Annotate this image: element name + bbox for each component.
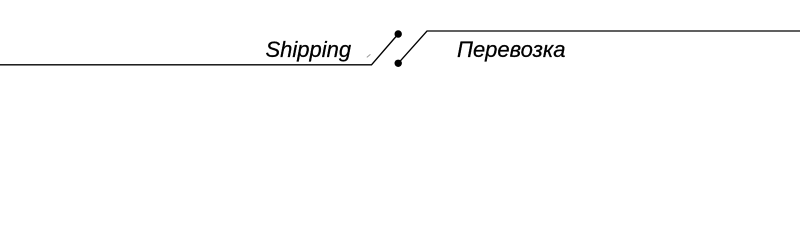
node: lower dot (395, 60, 402, 67)
wire: bottom-left horizontal rule rising diagonally to top node (0, 34, 398, 65)
svg-text:Shipping: Shipping (266, 37, 352, 62)
svg-text:Перевозка: Перевозка (457, 37, 566, 62)
tick: small gray flick left of upper diagonal (367, 54, 371, 57)
wire: diagonal from lower node to top-right horizontal rule (398, 31, 800, 63)
node: upper dot (395, 30, 402, 37)
